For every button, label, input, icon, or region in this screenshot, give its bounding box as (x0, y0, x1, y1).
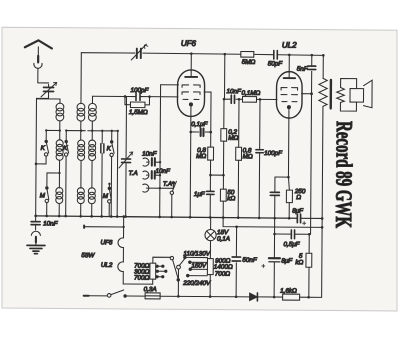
screen column from rail (223, 54, 225, 99)
wire A2a bottom down (58, 160, 60, 188)
UF6 cathode (189, 103, 192, 106)
wire x47 to M1 (46, 173, 48, 187)
column grid2 100pF (258, 99, 261, 217)
svg-text:700Ω: 700Ω (134, 275, 150, 282)
line 10nF/0,1M to UL2 grid (224, 98, 277, 100)
lamp column (210, 218, 212, 230)
resistor 1,5MOhm (124, 96, 126, 104)
tube UF6 envelope (177, 70, 204, 117)
resistor 250 Ohm (286, 190, 292, 203)
link line 3 (88, 130, 118, 132)
UL2 heater bump (118, 262, 124, 272)
8uF electrolytic column (273, 218, 276, 297)
wire jack3 to TA switch (146, 184, 173, 189)
svg-text:M: M (103, 193, 109, 200)
ground hook (31, 231, 40, 235)
heater line 58W (84, 226, 123, 228)
jack 2 (143, 171, 149, 179)
switch M2 (109, 184, 111, 200)
wire C2a down (91, 161, 93, 189)
switch K2 (66, 131, 69, 154)
UL2 anode wire right (302, 93, 312, 95)
link at y174 (47, 172, 59, 174)
heater column (123, 216, 153, 284)
svg-text:1,6kΩ: 1,6kΩ (280, 288, 297, 295)
UL2 grid dashes (281, 88, 298, 91)
resistor 50k (220, 189, 226, 201)
svg-text:5MΩ: 5MΩ (242, 59, 256, 66)
svg-text:110/130V: 110/130V (183, 250, 210, 257)
svg-text:0,3A: 0,3A (144, 286, 157, 293)
svg-text:50pF: 50pF (268, 60, 284, 67)
capacitor 8uF (electrolytic) (269, 257, 280, 259)
antenna coupling hook (34, 63, 42, 68)
speaker wiring (340, 78, 356, 111)
grid line y97 (93, 95, 178, 98)
column 0,8M right (237, 99, 240, 217)
wire: left bus vertical (35, 98, 38, 215)
output transformer primary (322, 55, 324, 78)
wire M1 to bus (46, 203, 48, 216)
svg-text:220/240V: 220/240V (182, 280, 211, 287)
wire B2b to bus (80, 204, 82, 216)
fuse 0,3A (145, 293, 160, 299)
speaker driver (350, 89, 364, 103)
svg-text:kΩ: kΩ (295, 259, 303, 266)
wire K1 to left bus (36, 156, 46, 164)
svg-text:MΩ: MΩ (228, 135, 238, 142)
top rail left drop to coil B1 (80, 53, 82, 104)
svg-text:MΩ: MΩ (243, 153, 253, 160)
svg-text:100pF: 100pF (264, 150, 283, 157)
coil A1 (56, 103, 64, 111)
resistor 0,8M (left) (208, 147, 214, 160)
svg-text:10nF: 10nF (43, 220, 59, 227)
jack 1 (143, 158, 149, 166)
UL2 anode (288, 55, 290, 78)
wire: antenna feed to coil A1 (36, 99, 60, 104)
svg-text:0,5μF: 0,5μF (283, 241, 300, 248)
svg-text:8μF: 8μF (281, 258, 293, 265)
wire A2b to bus (58, 204, 60, 216)
dial lamp (205, 229, 216, 240)
svg-text:0,1MΩ: 0,1MΩ (242, 90, 261, 97)
svg-text:Ω: Ω (296, 194, 301, 201)
switch K3 (112, 131, 115, 154)
capacitor 0,1uF (191, 131, 211, 133)
UL2 cathode network stub (275, 176, 288, 178)
svg-text:0,1A: 0,1A (217, 236, 230, 243)
coil B2b (77, 188, 84, 195)
svg-text:50nF: 50nF (242, 257, 258, 264)
main chassis bus (36, 216, 297, 218)
capacitor 0,5uF line (275, 233, 310, 235)
heater selector arm (153, 257, 171, 263)
svg-text:700Ω: 700Ω (215, 271, 231, 278)
UF6 left grid wire (161, 84, 179, 86)
svg-text:1,5MΩ: 1,5MΩ (129, 109, 148, 116)
link line 2 (66, 130, 85, 132)
resistor 0,2M (221, 129, 227, 142)
wire C2b to bus (91, 204, 93, 216)
speaker cone (363, 80, 372, 108)
jack 3 (143, 184, 149, 192)
capacitor 100pF (right) (256, 150, 263, 153)
resistor 0,1M (242, 96, 256, 102)
sub rail y226 (223, 218, 322, 228)
wire K3 to bus (110, 157, 112, 217)
coil C1 (89, 103, 97, 111)
capacitor 50nF (232, 257, 240, 261)
heater dropper resistor 700/300/700 (150, 263, 156, 279)
mains line (84, 295, 89, 297)
tuning gang capacitor (125, 96, 127, 157)
rail trimmer capacitor (137, 49, 141, 59)
cathode bypass capacitor (274, 177, 276, 191)
bus continue after 8uF (301, 217, 322, 219)
UF6 screen wire right (204, 92, 211, 132)
switch K1 (46, 130, 49, 153)
heater selector taps (156, 265, 163, 267)
svg-text:UF6: UF6 (181, 39, 197, 48)
selector arm (179, 258, 185, 266)
link y175 (210, 174, 223, 176)
diode (250, 293, 258, 300)
svg-text:1μF: 1μF (194, 191, 206, 198)
capacitor 8uF (series in bus) (297, 214, 300, 223)
antenna (38, 47, 49, 83)
switch M1 (47, 188, 49, 199)
svg-text:100pF: 100pF (131, 87, 150, 94)
svg-text:10nF: 10nF (142, 151, 158, 158)
svg-text:UF6: UF6 (100, 239, 112, 246)
wire x117 link3 to bus (116, 131, 119, 216)
coil B2a (78, 140, 85, 147)
resistor 1,6k (283, 294, 300, 300)
resistor 6k (306, 253, 312, 267)
wire B2a down (80, 160, 82, 188)
svg-text:UL2: UL2 (101, 262, 113, 269)
antenna trimmer capacitor (44, 87, 54, 91)
UF6 grid dashes (182, 85, 200, 88)
svg-text:Record 89 GWK: Record 89 GWK (331, 121, 357, 228)
padder capacitor (101, 131, 103, 143)
svg-text:T.A: T.A (128, 170, 137, 177)
wire C1 top to grid line (91, 96, 93, 103)
wire C1 bottom to link3 (91, 121, 93, 140)
capacitor 1uF (207, 191, 214, 194)
svg-text:10nF: 10nF (227, 88, 243, 95)
UF6 heater bump (118, 238, 124, 248)
ground symbol (35, 242, 37, 244)
voltage selector contacts (185, 256, 207, 258)
capacitor 100pF (grid) (136, 93, 140, 101)
svg-text:0,1μF: 0,1μF (191, 121, 208, 128)
capacitor 10nF (jack1) (152, 158, 155, 166)
5nF column (311, 55, 312, 234)
svg-text:58W: 58W (81, 252, 95, 259)
svg-text:5nF: 5nF (297, 66, 309, 73)
transformer core (330, 80, 333, 108)
wire K2 to bus (65, 156, 67, 216)
capacitor 10nF (coupling) (231, 95, 234, 103)
mains switch (107, 294, 111, 298)
link line 1 (46, 129, 59, 131)
output transformer secondary (337, 87, 345, 102)
tube UL2 envelope (276, 72, 302, 119)
resistor 0,8M (right) (236, 147, 242, 160)
svg-text:UL2: UL2 (282, 41, 297, 50)
UL2 cathode (287, 106, 290, 109)
svg-text:M: M (40, 192, 46, 199)
mains dropper resistor (207, 259, 213, 275)
50nF column (235, 227, 237, 297)
capacitor 10nF (jack2) (152, 171, 155, 179)
ground 10nF capacitor (35, 216, 37, 221)
capacitor 50pF (274, 51, 278, 60)
coil A2b (56, 187, 63, 194)
svg-text:MΩ: MΩ (196, 153, 206, 160)
svg-text:150V: 150V (191, 262, 207, 269)
svg-text:T.A: T.A (163, 181, 172, 188)
svg-text:10nF: 10nF (155, 168, 171, 175)
wire B1 bottom to link2 (80, 121, 82, 140)
TA line vertical (159, 85, 162, 217)
wire A1 bottom to link1 (59, 121, 61, 140)
switch TA (172, 182, 174, 184)
coil B1 (77, 103, 85, 111)
coil C2a (89, 140, 96, 147)
top rail (81, 53, 323, 56)
UF6 anode (190, 53, 192, 76)
capacitor 5nF (308, 66, 316, 69)
coil C2b (88, 188, 95, 195)
resistor 5M (241, 51, 254, 57)
coil A2a (56, 140, 63, 147)
wire M2 to bus (108, 203, 110, 216)
svg-text:8μF: 8μF (292, 208, 304, 215)
svg-text:kΩ: kΩ (227, 195, 235, 202)
